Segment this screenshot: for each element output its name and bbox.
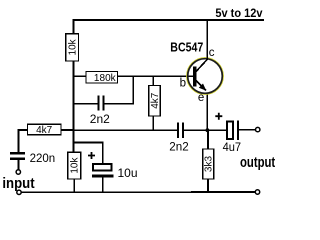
transistor Q1 base bar (193, 67, 196, 87)
wire C1 right plate to jog (105, 103, 135, 105)
resistor R2 180k (horizontal) (86, 72, 118, 84)
svg-text:e: e (198, 92, 204, 104)
svg-text:10k: 10k (68, 38, 79, 55)
wire left rail to C1 (74, 103, 98, 105)
svg-text:220n: 220n (30, 151, 56, 165)
capacitor C3 10u electrolytic (92, 164, 113, 177)
transistor Q1 body circle (188, 59, 223, 94)
wire junction to R6 (207, 130, 209, 149)
wire left rail to emitter network (74, 129, 178, 131)
terminal input hot (16, 170, 20, 174)
svg-text:10u: 10u (118, 166, 138, 180)
svg-text:BC547: BC547 (170, 41, 203, 55)
svg-text:180k: 180k (94, 73, 117, 84)
svg-text:3k3: 3k3 (204, 156, 215, 173)
wire R3 to C2 (19, 130, 28, 152)
wire C2 to input terminal (18, 160, 20, 170)
wire R5 stem down (152, 116, 154, 130)
capacitor C1 2n2 (98, 96, 105, 111)
svg-text:2n2: 2n2 (90, 112, 110, 126)
plus sign C5 (215, 113, 222, 120)
wire emitter down to junction (206, 93, 208, 131)
svg-text:2n2: 2n2 (169, 139, 189, 153)
capacitor C5 4u7 electrolytic (227, 121, 239, 141)
capacitor C4 2n2 (emitter) (177, 123, 184, 138)
terminal output hot (256, 127, 260, 131)
wire bottom ground rail (21, 191, 255, 193)
wire R5 stem up to base rail (152, 76, 154, 85)
wire R4 to ground rail (73, 179, 75, 192)
wire C4 to emitter junction and C5 (184, 129, 226, 131)
plus sign C3 (88, 152, 95, 159)
capacitor C2 220n (10, 152, 25, 160)
resistor R6 3k3 (vertical) (203, 149, 215, 179)
resistor R4 10k (lower, vertical) (68, 152, 81, 179)
wire 180k to transistor base (118, 75, 194, 77)
svg-text:output: output (240, 154, 275, 171)
transistor Q1 emitter arrowhead (199, 84, 207, 91)
resistor R3 4k7 (horizontal, input) (28, 124, 62, 136)
svg-text:b: b (180, 77, 186, 89)
resistor R5 4k7 (vertical, bootstrap) (149, 86, 161, 117)
wire base rail to 180k (74, 75, 87, 77)
wire top supply rail (73, 19, 264, 21)
wire left rail below R1 (73, 61, 75, 153)
wire jog from base rail down to C1 (132, 75, 134, 103)
wire left rail to R3 (61, 129, 74, 131)
wire from supply rail down to R1 (73, 19, 75, 34)
svg-text:5v to 12v: 5v to 12v (215, 6, 262, 20)
svg-text:4k7: 4k7 (150, 92, 161, 109)
resistor R1 10k (upper left, vertical) (66, 34, 79, 61)
junction dot emitter node (206, 128, 210, 132)
transistor Q1 halo ring (187, 58, 224, 95)
wire collector to supply rail (206, 19, 208, 59)
wire left rail to C3 (74, 143, 103, 164)
svg-text:c: c (209, 47, 215, 59)
wire R6 to ground rail (207, 179, 209, 192)
terminal output ground (255, 190, 259, 194)
wire C5 to output terminal (239, 129, 255, 131)
terminal input ground (17, 190, 21, 194)
svg-text:4u7: 4u7 (223, 140, 242, 154)
transistor Q1 collector diagonal (196, 59, 208, 72)
svg-text:4k7: 4k7 (36, 125, 53, 136)
wire C3 to ground rail (102, 177, 104, 192)
transistor Q1 emitter diagonal (196, 80, 206, 90)
svg-text:10k: 10k (70, 157, 81, 174)
